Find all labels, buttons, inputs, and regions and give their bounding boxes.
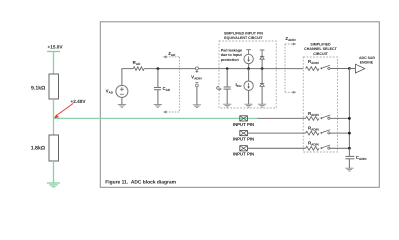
wire R1 to node bbox=[53, 99, 55, 135]
wire node to C_AD bbox=[157, 69, 159, 88]
svg-text:1.8kΩ: 1.8kΩ bbox=[31, 145, 45, 151]
V_ADIN probe circle on rail bbox=[195, 67, 198, 70]
wire bus to ADC triangle bbox=[349, 68, 355, 70]
switch row1 bbox=[321, 115, 350, 119]
svg-text:INPUT PIN: INPUT PIN bbox=[233, 152, 254, 157]
svg-text:INPUT PIN: INPUT PIN bbox=[233, 122, 254, 127]
stub power bar to top diode bbox=[261, 50, 263, 56]
V_ADIN plus sign bbox=[195, 70, 198, 73]
svg-text:Figure 11. ADC block diagram: Figure 11. ADC block diagram bbox=[105, 179, 176, 185]
diode top (ESD to VDD) bbox=[260, 56, 264, 59]
annotation arrow to +2.48V node bbox=[54, 103, 73, 118]
R_ADIN row2 zigzag bbox=[306, 131, 319, 135]
input pin 2 symbol bbox=[240, 131, 248, 136]
wire to C_P bbox=[226, 69, 228, 87]
Z_AD bracket vertical bbox=[178, 57, 180, 112]
ADC SAR engine triangle bbox=[355, 64, 364, 73]
wire C_P to ground bbox=[226, 89, 228, 104]
wire V_ADIN probe to ground bbox=[196, 87, 198, 105]
wire rail through box bbox=[219, 68, 303, 70]
wire bottom diode to ground bbox=[261, 86, 263, 104]
svg-text:EQUIVALENT CIRCUIT: EQUIVALENT CIRCUIT bbox=[224, 36, 263, 40]
ground under V_AD bbox=[118, 105, 126, 108]
svg-text:SIMPLIFIED: SIMPLIFIED bbox=[310, 42, 331, 46]
wire pin2 to R_ADIN row2 bbox=[247, 132, 305, 134]
wire pin1 to R_ADIN row1 bbox=[258, 117, 306, 119]
node junction dot at C_AD bbox=[157, 67, 160, 70]
channel select dashed box bbox=[303, 57, 337, 152]
ground under C_P bbox=[223, 104, 231, 107]
wire V_AD to rail bbox=[122, 69, 133, 86]
capacitor C_ADIN bbox=[345, 156, 354, 158]
wire C_ADIN to ground bbox=[348, 159, 350, 168]
capacitor C_AD bbox=[154, 88, 161, 90]
svg-text:Pad leakage: Pad leakage bbox=[221, 49, 242, 53]
junction dot current source column bbox=[247, 67, 250, 70]
wire rail to bottom diode bbox=[261, 69, 263, 84]
power bar over top diode bbox=[260, 49, 265, 51]
wire from +15.0V to R1 bbox=[53, 52, 55, 75]
svg-text:INPUT PIN: INPUT PIN bbox=[233, 137, 254, 142]
current source I_INJ (circle with down arrow) bbox=[244, 81, 253, 90]
Z_ADIN bracket bottom arrow bbox=[285, 91, 293, 93]
junction dot diode column bbox=[261, 67, 264, 70]
current source top (circle with down arrow) bbox=[244, 54, 253, 63]
junction dot bus top bbox=[348, 67, 351, 70]
junction dot bus row3 bbox=[348, 147, 351, 150]
outer figure frame bbox=[100, 22, 379, 188]
ground under V_ADIN bbox=[193, 105, 201, 108]
wire node to INPUT PIN (horizontal green) bbox=[54, 117, 258, 119]
junction dot bus row2 bbox=[348, 132, 351, 135]
Z_AD bracket bottom arrow bbox=[166, 111, 179, 113]
input pin equivalent dashed box bbox=[219, 41, 276, 108]
input pin 1 symbol bbox=[240, 116, 248, 121]
ground under bottom diode bbox=[258, 104, 266, 107]
ground (green earth) bbox=[47, 183, 60, 187]
wire V_AD to ground bbox=[121, 97, 123, 104]
ground under C_AD bbox=[154, 105, 162, 108]
resistor R2 1.8k body bbox=[49, 135, 59, 161]
ground under I_INJ bbox=[245, 104, 253, 107]
svg-text:+15.0V: +15.0V bbox=[48, 44, 64, 49]
R_ADIN row3 zigzag bbox=[306, 146, 319, 150]
capacitor C_P bbox=[224, 87, 231, 89]
wire top diode to rail bbox=[261, 59, 263, 69]
V_ADIN lower probe circle bbox=[196, 84, 199, 87]
wire I_INJ to ground bbox=[248, 90, 250, 104]
svg-text:protection: protection bbox=[221, 58, 240, 62]
Z_ADIN bracket top arrow bbox=[285, 43, 293, 45]
resistor R1 9.1k body bbox=[49, 74, 59, 99]
R_ADIN row0 zigzag bbox=[306, 67, 319, 71]
junction dot at C_P bbox=[226, 67, 229, 70]
power bar over top current source bbox=[246, 49, 251, 51]
V_ADIN minus sign bbox=[195, 82, 198, 84]
wire rail node to input pin box bbox=[196, 68, 219, 70]
Z_AD bracket top arrow bbox=[166, 56, 179, 58]
Z_ADIN bracket vertical bbox=[284, 44, 286, 92]
svg-text:ENGINE: ENGINE bbox=[360, 60, 374, 64]
svg-text:due to input: due to input bbox=[221, 53, 243, 57]
wire pin3 to R_ADIN row3 bbox=[247, 147, 305, 149]
input pin 3 symbol bbox=[240, 146, 248, 151]
wire rail to I_INJ source bbox=[248, 69, 250, 81]
R_ADIN row1 zigzag bbox=[306, 117, 319, 121]
ground under C_ADIN bbox=[345, 168, 353, 171]
svg-text:CHANNEL SELECT: CHANNEL SELECT bbox=[304, 47, 337, 51]
wire R2 to ground bbox=[53, 161, 55, 183]
resistor R_AD zigzag bbox=[133, 67, 144, 71]
diode bottom (ESD to VSS) bbox=[260, 84, 264, 87]
switch row2 bbox=[321, 130, 350, 134]
wire R_AD to node bbox=[144, 68, 196, 70]
wire bus to C_ADIN bbox=[348, 148, 350, 156]
wire top current source to rail bbox=[248, 64, 250, 69]
stub power bar to top current source bbox=[248, 50, 250, 55]
svg-text:9.1kΩ: 9.1kΩ bbox=[31, 85, 45, 91]
junction dot bus row1 bbox=[348, 117, 351, 120]
switch row0 bbox=[321, 65, 350, 69]
power rail +15.0V bar bbox=[47, 51, 60, 53]
voltage source V_AD circle bbox=[116, 85, 128, 97]
switch row3 bbox=[321, 145, 350, 149]
svg-text:CIRCUIT: CIRCUIT bbox=[313, 52, 328, 56]
wire C_AD to ground bbox=[157, 90, 159, 105]
svg-text:+2.48V: +2.48V bbox=[71, 99, 87, 104]
bus vertical line bbox=[348, 69, 350, 149]
